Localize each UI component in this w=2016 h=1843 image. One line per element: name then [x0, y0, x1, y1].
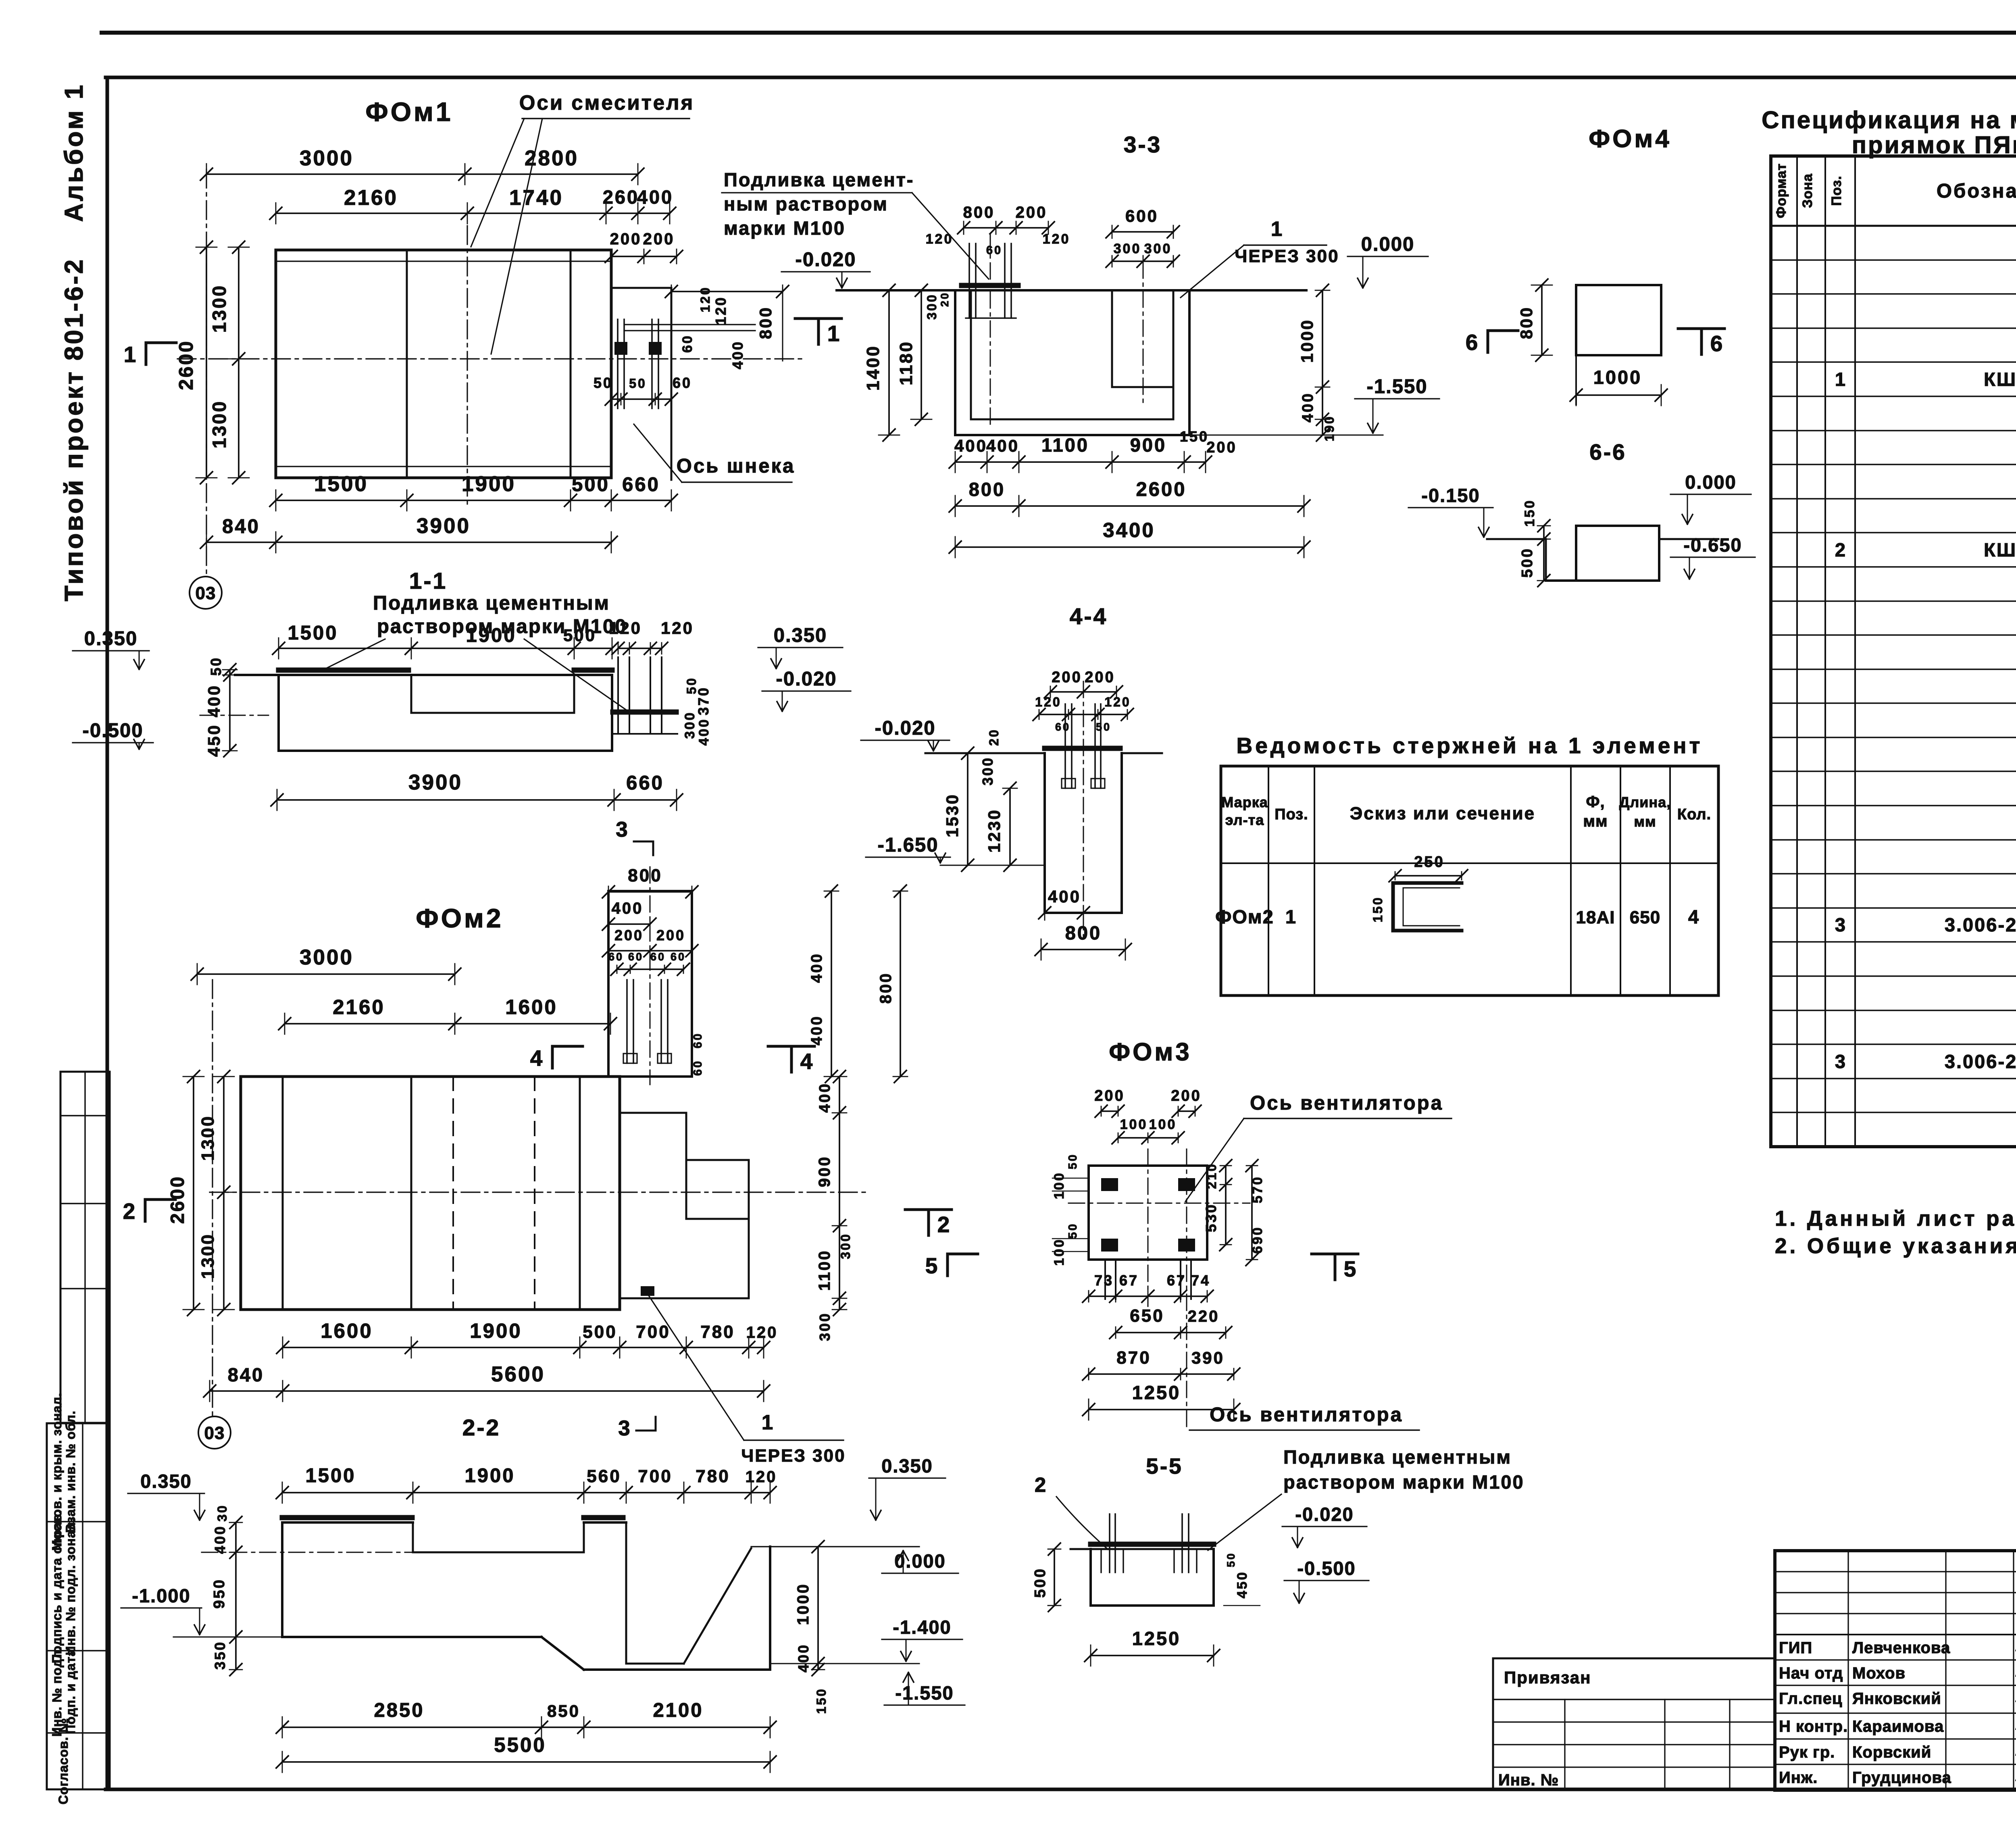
FOm1 axis circle	[190, 577, 222, 609]
svg-text:1900: 1900	[470, 1319, 522, 1342]
svg-text:1: 1	[124, 342, 136, 367]
section 3-3 pit outline	[955, 290, 1189, 435]
svg-text:3: 3	[616, 818, 627, 841]
svg-text:800: 800	[1065, 922, 1102, 943]
FOm1 right small dims	[665, 285, 789, 369]
svg-text:4-4: 4-4	[1070, 604, 1108, 629]
svg-text:4: 4	[800, 1049, 813, 1074]
FOm1 title	[365, 97, 453, 127]
margin text album	[59, 83, 88, 222]
svg-text:200: 200	[1171, 1087, 1201, 1104]
svg-text:Рук гр.: Рук гр.	[1779, 1743, 1835, 1761]
svg-text:200: 200	[1016, 204, 1048, 221]
svg-text:Ф,: Ф,	[1586, 793, 1605, 811]
FOm2 axis circle	[198, 1416, 231, 1449]
FOm2 right extension	[620, 1113, 749, 1298]
svg-text:1900: 1900	[462, 472, 516, 496]
svg-text:260: 260	[603, 186, 639, 208]
cut mark 3 top	[616, 818, 653, 855]
FOm1 plan outline	[276, 250, 611, 478]
svg-text:4: 4	[530, 1045, 543, 1070]
svg-text:ФОм3: ФОм3	[1109, 1038, 1192, 1066]
svg-text:200: 200	[1052, 669, 1082, 686]
section 5-5 levels	[1282, 1504, 1369, 1603]
flag T5 right	[1312, 1254, 1358, 1281]
flag T2 right	[905, 1210, 952, 1237]
svg-text:1300: 1300	[198, 1233, 218, 1279]
FOm1 dim 50 50 60	[594, 375, 692, 405]
svg-text:150: 150	[1180, 428, 1209, 445]
svg-text:60: 60	[608, 951, 624, 963]
svg-text:800: 800	[877, 972, 895, 1004]
svg-text:Гл.спец: Гл.спец	[1779, 1690, 1842, 1708]
svg-text:650: 650	[1130, 1306, 1164, 1326]
svg-text:эл-та: эл-та	[1225, 812, 1264, 828]
FOm1 dim 2160 1740 260 400	[270, 186, 676, 224]
svg-text:1100: 1100	[1041, 434, 1089, 456]
svg-text:5-5: 5-5	[1146, 1454, 1183, 1479]
mortar note 3-3	[722, 169, 989, 279]
svg-text:Длина,: Длина,	[1619, 794, 1671, 810]
section 4-4 top dims	[1033, 669, 1133, 733]
svg-text:Поз.: Поз.	[1275, 806, 1308, 823]
svg-text:Левченкова: Левченкова	[1852, 1639, 1950, 1657]
svg-text:1000: 1000	[794, 1583, 812, 1625]
svg-text:300: 300	[682, 711, 698, 739]
svg-text:500: 500	[1032, 1567, 1049, 1597]
FOm2 right top dims	[808, 885, 908, 1083]
svg-text:4: 4	[1688, 906, 1700, 927]
flag T4 right	[768, 1046, 814, 1074]
svg-text:1180: 1180	[896, 340, 916, 385]
section 3-3 title	[1124, 132, 1162, 158]
svg-text:190: 190	[1322, 415, 1337, 441]
svg-text:Янковский: Янковский	[1852, 1690, 1941, 1708]
svg-text:1740: 1740	[509, 186, 563, 210]
rod list title	[1237, 733, 1703, 758]
svg-text:Спецификация на монолитные фун: Спецификация на монолитные фундаменты ФО…	[1762, 106, 2016, 133]
svg-text:Марка: Марка	[1221, 794, 1268, 810]
svg-text:150: 150	[1370, 896, 1385, 922]
axis mixer label	[471, 91, 694, 354]
svg-text:2: 2	[1035, 1473, 1048, 1496]
FOm1 dim 200 200	[605, 230, 683, 264]
svg-text:КШ-6: КШ-6	[1984, 539, 2016, 560]
FOm2 plan outline	[241, 1077, 620, 1310]
section 4-4 left dims	[943, 728, 1017, 871]
svg-text:67: 67	[1167, 1272, 1186, 1289]
svg-text:50: 50	[1066, 1222, 1079, 1239]
svg-text:200: 200	[1206, 439, 1237, 456]
section 2-2 pointer	[462, 1295, 846, 1466]
svg-text:1: 1	[1271, 217, 1284, 240]
svg-text:120: 120	[1043, 231, 1070, 247]
section 6-6 levels	[1408, 471, 1755, 579]
svg-text:5500: 5500	[494, 1733, 546, 1756]
svg-text:20: 20	[987, 728, 1001, 746]
svg-text:1000: 1000	[1297, 319, 1316, 362]
svg-text:400: 400	[795, 1643, 812, 1672]
mortar note 1-1	[323, 592, 627, 710]
svg-text:ФОм1: ФОм1	[365, 97, 453, 127]
spec title	[1762, 106, 2016, 158]
FOm3 right dims	[1203, 1160, 1265, 1266]
svg-text:250: 250	[1414, 854, 1444, 870]
svg-text:ФОм2: ФОм2	[416, 903, 503, 933]
svg-text:0.350: 0.350	[84, 628, 138, 650]
notes	[1775, 1207, 2016, 1258]
svg-text:1300: 1300	[208, 284, 230, 333]
privyazan table	[1493, 1658, 1775, 1790]
svg-text:5: 5	[1344, 1256, 1356, 1281]
svg-text:400: 400	[1048, 887, 1081, 906]
spec table header	[1774, 163, 2016, 218]
FOm2 title	[416, 903, 503, 933]
svg-text:220: 220	[1188, 1308, 1220, 1325]
title block roles	[1779, 1639, 2016, 1787]
svg-text:1230: 1230	[985, 808, 1004, 852]
svg-text:6-6: 6-6	[1589, 439, 1627, 464]
section 4-4 levels	[861, 717, 1045, 865]
svg-text:1600: 1600	[321, 1319, 373, 1342]
svg-text:-0.500: -0.500	[1297, 1558, 1356, 1579]
FOm3 legs	[1105, 1260, 1191, 1299]
svg-text:150: 150	[814, 1687, 829, 1714]
svg-text:1-1: 1-1	[409, 568, 447, 594]
svg-text:Формат: Формат	[1774, 163, 1789, 218]
svg-text:Согласов. №: Согласов. №	[56, 1718, 71, 1805]
section 1-1 levels	[73, 625, 851, 749]
svg-text:390: 390	[1191, 1348, 1225, 1367]
section 5-5 bottom dim	[1085, 1628, 1220, 1666]
svg-text:210: 210	[1204, 1162, 1219, 1189]
svg-text:Кол.: Кол.	[1677, 806, 1711, 823]
svg-text:50: 50	[1066, 1153, 1079, 1169]
svg-text:2850: 2850	[374, 1699, 424, 1721]
svg-text:120: 120	[698, 286, 712, 312]
flag cherez300 3-3	[1181, 217, 1339, 298]
svg-text:-0.150: -0.150	[1421, 485, 1480, 506]
svg-text:500: 500	[563, 626, 596, 645]
svg-text:120: 120	[746, 1468, 777, 1486]
section 3-3 anchor bolts	[966, 234, 1016, 427]
section 2-2 top dims	[276, 1465, 777, 1503]
flag 6 left	[1466, 330, 1518, 355]
svg-text:30: 30	[215, 1504, 229, 1522]
svg-text:150: 150	[1522, 499, 1537, 527]
svg-text:5600: 5600	[491, 1362, 545, 1386]
svg-text:60: 60	[986, 244, 1002, 257]
svg-text:марки М100: марки М100	[724, 217, 846, 239]
svg-text:Инж.: Инж.	[1779, 1769, 1818, 1787]
section 3-3 bottom dims	[949, 428, 1310, 558]
svg-text:03: 03	[204, 1423, 225, 1443]
svg-text:120: 120	[746, 1324, 778, 1341]
svg-text:раствором марки М100: раствором марки М100	[1283, 1471, 1524, 1493]
section 6-6 title	[1589, 439, 1627, 464]
svg-text:2600: 2600	[1136, 479, 1186, 500]
title block outer	[1775, 1551, 2016, 1790]
svg-text:800: 800	[963, 204, 995, 221]
svg-text:2800: 2800	[525, 146, 579, 170]
section 4-4 ground	[925, 748, 1162, 753]
flag 4 left	[530, 1045, 583, 1070]
svg-text:300: 300	[925, 293, 939, 319]
svg-text:120: 120	[1035, 695, 1061, 709]
FOm2 bottom dims	[204, 1319, 778, 1402]
svg-text:3: 3	[1835, 1051, 1847, 1072]
svg-text:КШ-6: КШ-6	[1984, 369, 2016, 390]
title block left grid	[1775, 1551, 2016, 1790]
svg-text:1000: 1000	[1593, 367, 1642, 388]
svg-text:400: 400	[986, 436, 1019, 455]
svg-text:300: 300	[979, 756, 996, 785]
svg-text:-1.550: -1.550	[895, 1682, 954, 1703]
svg-text:850: 850	[547, 1701, 580, 1720]
rod sketch	[1370, 854, 1468, 931]
svg-text:60: 60	[628, 951, 644, 963]
svg-text:60: 60	[691, 1032, 704, 1048]
FOm2 detail dims	[602, 866, 704, 1076]
section 2-2 body	[202, 1518, 770, 1670]
FOm2 top dims	[191, 945, 616, 1034]
svg-text:-0.020: -0.020	[776, 668, 837, 690]
svg-text:-0.500: -0.500	[83, 720, 144, 741]
svg-text:3900: 3900	[417, 514, 471, 538]
svg-text:560: 560	[587, 1466, 621, 1486]
svg-text:Взам. инв. № обл.: Взам. инв. № обл.	[63, 1410, 78, 1533]
svg-text:800: 800	[969, 479, 1005, 500]
svg-text:1530: 1530	[943, 793, 962, 837]
svg-text:660: 660	[626, 772, 664, 794]
FOm2 right side dims	[816, 1070, 853, 1341]
section 2-2 bottom dims	[276, 1699, 776, 1772]
svg-text:950: 950	[211, 1578, 228, 1608]
flag 2 left	[123, 1199, 175, 1224]
svg-text:400: 400	[729, 340, 746, 369]
svg-text:Подпись и дата справ.: Подпись и дата справ.	[50, 1510, 64, 1664]
margin text project	[59, 258, 88, 602]
FOm3 top dims	[1094, 1087, 1201, 1144]
margin archive box	[47, 1393, 110, 1804]
svg-text:700: 700	[636, 1322, 670, 1342]
leader 2 mark	[1035, 1473, 1108, 1549]
svg-text:67: 67	[1119, 1272, 1139, 1289]
section 5-5 title	[1146, 1454, 1183, 1479]
section 2-2 right dims	[794, 1541, 829, 1714]
svg-text:ФОм2: ФОм2	[1215, 906, 1274, 927]
svg-text:2: 2	[123, 1199, 135, 1224]
svg-text:Эскиз или сечение: Эскиз или сечение	[1350, 804, 1535, 823]
svg-text:200: 200	[643, 230, 675, 248]
svg-text:870: 870	[1116, 1348, 1151, 1368]
svg-text:500: 500	[583, 1322, 617, 1342]
svg-text:Н контр.: Н контр.	[1779, 1718, 1848, 1735]
svg-text:500: 500	[572, 474, 610, 496]
svg-text:1: 1	[1285, 906, 1297, 927]
svg-text:300: 300	[1144, 241, 1172, 256]
section 1-1 body	[200, 670, 612, 751]
FOm3 left dims	[1052, 1153, 1089, 1266]
svg-text:400: 400	[808, 952, 825, 983]
svg-text:120: 120	[712, 296, 729, 325]
svg-text:200: 200	[614, 927, 644, 943]
svg-text:мм: мм	[1583, 812, 1608, 830]
svg-text:Ведомость стержней на 1 элемен: Ведомость стержней на 1 элемент	[1237, 733, 1703, 758]
svg-text:0.000: 0.000	[1685, 471, 1737, 493]
mortar note 5-5	[1208, 1446, 1524, 1550]
svg-text:-1.650: -1.650	[878, 834, 939, 856]
section 4-4 pedestal	[1045, 681, 1122, 939]
section 2-2 left dims	[211, 1504, 242, 1676]
svg-text:840: 840	[228, 1364, 264, 1385]
svg-text:1. Данный лист рассматривать с: 1. Данный лист рассматривать совместно с…	[1775, 1207, 2016, 1231]
svg-text:5: 5	[925, 1253, 938, 1278]
svg-text:2. Общие указания см. листы 1,: 2. Общие указания см. листы 1,2.	[1775, 1234, 2016, 1258]
svg-text:18АI: 18АI	[1576, 908, 1615, 927]
svg-text:450: 450	[1235, 1571, 1250, 1599]
svg-text:73: 73	[1094, 1272, 1114, 1289]
section mark 1 left	[124, 342, 176, 367]
svg-text:900: 900	[816, 1156, 833, 1187]
svg-text:400: 400	[612, 900, 644, 917]
svg-text:-0.020: -0.020	[796, 249, 856, 271]
svg-text:690: 690	[1250, 1226, 1265, 1254]
svg-text:1: 1	[827, 321, 840, 346]
section 4-4 bolts	[1062, 704, 1105, 788]
svg-text:1900: 1900	[464, 1465, 515, 1487]
FOm4 title	[1589, 125, 1672, 153]
svg-text:400: 400	[816, 1082, 833, 1112]
svg-text:Ось шнека: Ось шнека	[677, 455, 796, 477]
rod list table	[1215, 766, 1718, 995]
svg-text:-1.000: -1.000	[132, 1585, 190, 1606]
section 3-3 left dims	[863, 284, 951, 441]
svg-text:Подливка цемент-: Подливка цемент-	[724, 169, 914, 190]
FOm2 left dims	[167, 1070, 234, 1316]
svg-text:Грудцинова: Грудцинова	[1852, 1769, 1951, 1787]
svg-text:400: 400	[696, 718, 712, 746]
svg-text:ГИП: ГИП	[1779, 1639, 1812, 1657]
section 4-4 bottom dims	[1035, 887, 1131, 960]
FOm1 left dims	[175, 241, 249, 484]
svg-text:Поз.: Поз.	[1829, 175, 1844, 206]
svg-text:840: 840	[222, 516, 260, 537]
section 1-1 title	[409, 568, 447, 594]
svg-text:03: 03	[196, 583, 216, 603]
svg-text:200: 200	[1094, 1087, 1125, 1104]
svg-text:700: 700	[638, 1466, 672, 1486]
svg-text:0.350: 0.350	[881, 1455, 933, 1476]
FOm2 anchor detail box	[608, 867, 692, 1085]
svg-text:-1.400: -1.400	[893, 1616, 951, 1638]
svg-text:100: 100	[1120, 1117, 1148, 1132]
svg-text:370: 370	[695, 686, 712, 715]
svg-text:1250: 1250	[1132, 1382, 1181, 1403]
svg-text:Привязан: Привязан	[1504, 1668, 1591, 1687]
svg-text:800: 800	[756, 306, 775, 339]
svg-text:2: 2	[1835, 539, 1847, 560]
axis auger label	[634, 424, 795, 482]
svg-text:1500: 1500	[305, 1465, 356, 1487]
svg-text:600: 600	[1125, 206, 1158, 225]
svg-text:Ось вентилятора: Ось вентилятора	[1250, 1092, 1443, 1114]
svg-text:3000: 3000	[300, 146, 354, 170]
spec table grid	[1771, 156, 2016, 1147]
svg-text:Инв. № подл. зонал.: Инв. № подл. зонал.	[63, 1518, 78, 1655]
section 1-1 left dims	[204, 656, 237, 757]
svg-text:60: 60	[1055, 721, 1070, 733]
top rule line	[102, 31, 2016, 35]
svg-text:200: 200	[656, 927, 685, 943]
svg-text:530: 530	[1203, 1203, 1219, 1232]
svg-text:3000: 3000	[300, 945, 354, 969]
svg-text:Корвский: Корвский	[1852, 1743, 1931, 1761]
FOm1 axis lines	[177, 169, 804, 576]
svg-text:1100: 1100	[816, 1249, 833, 1291]
svg-text:570: 570	[1250, 1176, 1265, 1204]
svg-text:780: 780	[700, 1322, 735, 1342]
FOm3 plan outline	[1068, 1149, 1250, 1429]
svg-text:660: 660	[622, 474, 660, 496]
svg-text:2600: 2600	[175, 339, 197, 390]
svg-text:100: 100	[1052, 1172, 1067, 1200]
svg-text:Подливка цементным: Подливка цементным	[373, 592, 610, 614]
svg-text:-0.650: -0.650	[1683, 534, 1742, 556]
svg-text:1400: 1400	[863, 345, 883, 391]
svg-text:60: 60	[673, 375, 692, 391]
svg-text:200: 200	[1085, 669, 1115, 686]
svg-text:ФОм4: ФОм4	[1589, 125, 1672, 153]
svg-text:ным раствором: ным раствором	[724, 193, 888, 214]
svg-text:1300: 1300	[208, 400, 230, 449]
svg-text:60: 60	[680, 334, 695, 353]
svg-text:1900: 1900	[466, 625, 516, 646]
flag 5 left	[925, 1253, 978, 1278]
svg-text:120: 120	[1104, 695, 1131, 709]
FOm1 dim 3000 2800	[200, 146, 644, 185]
section 3-3 ground line	[837, 285, 1306, 290]
fan axis label bottom	[1189, 1404, 1419, 1430]
svg-text:1300: 1300	[198, 1115, 218, 1161]
svg-text:50: 50	[594, 375, 613, 391]
svg-text:Зона: Зона	[1800, 173, 1815, 208]
svg-text:0.350: 0.350	[774, 625, 827, 646]
section 3-3 right pier	[1112, 262, 1173, 407]
svg-text:200: 200	[610, 230, 642, 248]
svg-text:3: 3	[618, 1416, 630, 1440]
flag T6 right	[1678, 329, 1724, 356]
svg-text:50: 50	[1225, 1552, 1237, 1567]
svg-text:400: 400	[212, 1525, 228, 1554]
svg-text:Обозначение: Обозначение	[1937, 180, 2016, 202]
svg-text:2160: 2160	[344, 186, 398, 210]
svg-text:ЧЕРЕЗ 300: ЧЕРЕЗ 300	[741, 1446, 846, 1466]
svg-text:Мохов: Мохов	[1852, 1664, 1906, 1682]
svg-text:-0.020: -0.020	[1295, 1504, 1354, 1525]
svg-text:1500: 1500	[314, 472, 368, 496]
svg-text:мм: мм	[1634, 813, 1656, 830]
svg-text:2: 2	[937, 1212, 950, 1237]
svg-text:6: 6	[1710, 331, 1723, 356]
svg-text:74: 74	[1191, 1272, 1210, 1289]
svg-text:Оси смесителя: Оси смесителя	[519, 91, 695, 114]
svg-text:Подливка цементным: Подливка цементным	[1283, 1446, 1512, 1468]
svg-text:400: 400	[954, 436, 987, 455]
section 6-6 body	[1487, 526, 1718, 581]
FOm3 bottom dims	[1083, 1272, 1240, 1420]
svg-text:Инв. №: Инв. №	[1498, 1771, 1559, 1789]
